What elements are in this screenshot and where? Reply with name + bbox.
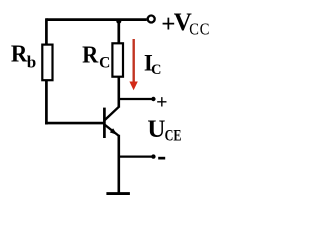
node junction top bbox=[116, 19, 121, 24]
svg-text:CC: CC bbox=[189, 20, 210, 38]
label Rb bbox=[11, 41, 36, 71]
wire base horizontal bbox=[45, 122, 104, 125]
wire collector + branch bbox=[119, 98, 152, 100]
wire Rc branch upper bbox=[117, 20, 120, 44]
svg-text:R: R bbox=[11, 41, 29, 68]
wire below Rb bbox=[45, 80, 48, 124]
ground bbox=[106, 192, 129, 195]
node + terminal dot bbox=[151, 97, 155, 101]
svg-text:CE: CE bbox=[165, 127, 182, 145]
wire top rail bbox=[46, 18, 146, 21]
wire collector vertical bbox=[118, 77, 121, 108]
svg-text:C: C bbox=[99, 55, 110, 72]
svg-text:C: C bbox=[151, 62, 161, 78]
transistor Q1 emitter diagonal bbox=[105, 125, 119, 136]
node - terminal dot bbox=[151, 154, 155, 158]
terminal circle for +Vcc bbox=[148, 16, 155, 23]
resistor Rc bbox=[112, 43, 123, 76]
label Uce bbox=[147, 116, 181, 145]
label - polarity bbox=[158, 157, 165, 160]
resistor Rb bbox=[42, 45, 52, 81]
svg-text:b: b bbox=[27, 52, 36, 71]
svg-text:U: U bbox=[147, 116, 165, 143]
wire left vertical above Rb bbox=[45, 18, 48, 45]
wire emitter - branch bbox=[119, 155, 152, 157]
transistor Q1 base bar bbox=[103, 108, 106, 138]
transistor Q1 emitter arrowhead bbox=[110, 128, 117, 135]
current arrow Ic bbox=[129, 39, 137, 90]
label Ic bbox=[144, 50, 161, 78]
svg-text:+: + bbox=[156, 91, 167, 113]
label Rc bbox=[82, 42, 110, 72]
label +Vcc bbox=[161, 9, 210, 39]
svg-text:R: R bbox=[82, 42, 98, 69]
transistor Q1 collector diagonal bbox=[105, 106, 120, 120]
wire emitter vertical bbox=[118, 135, 121, 195]
